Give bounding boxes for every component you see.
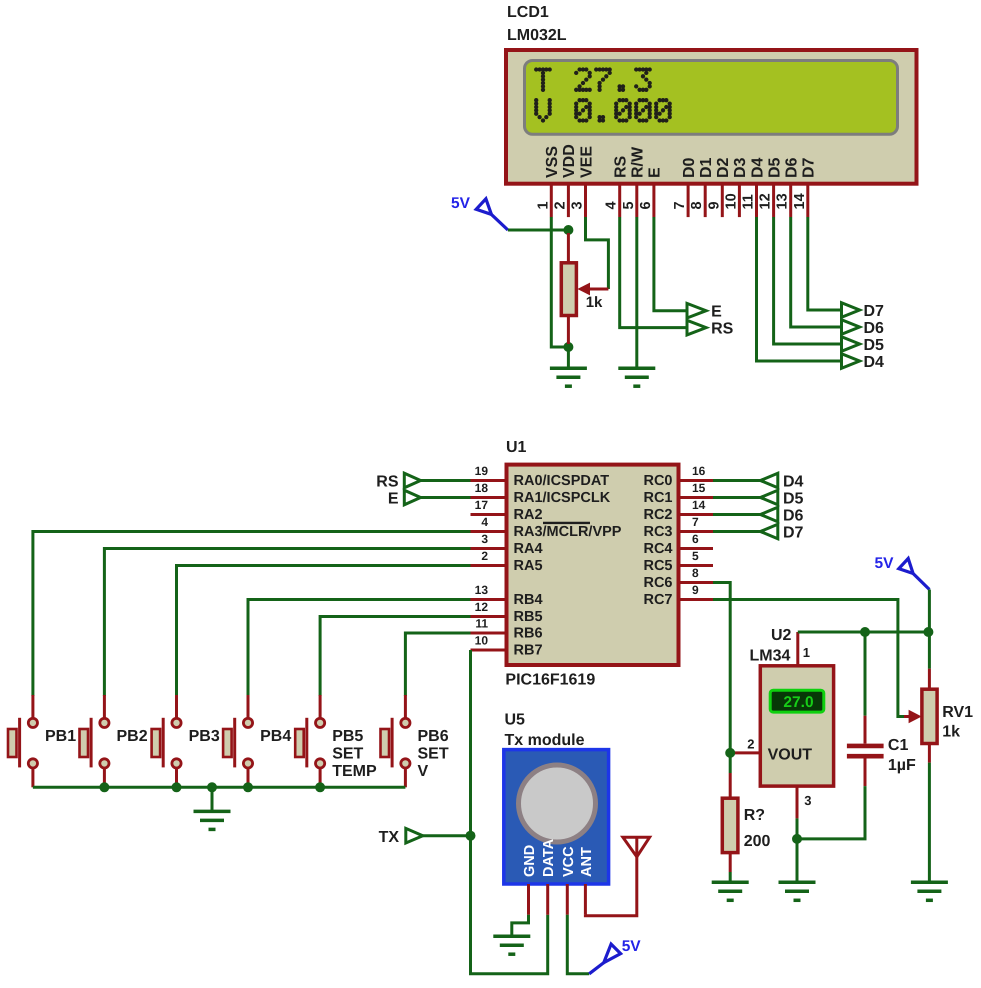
svg-text:11: 11 bbox=[475, 617, 488, 631]
wire pushbutton ground bus bbox=[33, 786, 406, 789]
terminal D4 (from LCD) bbox=[842, 354, 860, 369]
svg-text:10: 10 bbox=[475, 634, 489, 648]
svg-text:SET: SET bbox=[418, 746, 449, 763]
U1 pin 4 stub (RA3/MCLR/VPP) bbox=[471, 530, 507, 533]
svg-text:18: 18 bbox=[475, 481, 489, 495]
svg-text:5: 5 bbox=[621, 201, 637, 209]
junction bus x=248 bbox=[243, 782, 253, 792]
ground (R/W) bbox=[618, 368, 655, 386]
U1 pin 12 stub (RB5) bbox=[471, 615, 507, 618]
svg-text:3: 3 bbox=[570, 201, 586, 209]
terminal D7 (at U1) bbox=[760, 524, 777, 539]
svg-text:16: 16 bbox=[692, 464, 706, 478]
U1 pin 10 stub (RB7) bbox=[471, 649, 507, 652]
svg-text:1: 1 bbox=[803, 645, 810, 660]
junction RC6/VOUT/R? bbox=[725, 748, 735, 758]
svg-text:RS: RS bbox=[376, 474, 399, 491]
svg-text:200: 200 bbox=[744, 833, 771, 850]
svg-text:TEMP: TEMP bbox=[332, 763, 377, 780]
svg-text:RA2: RA2 bbox=[514, 507, 543, 523]
svg-text:RC5: RC5 bbox=[643, 558, 672, 574]
LCD pin 6 stub bbox=[652, 184, 655, 217]
wire bus to ground bbox=[211, 787, 214, 811]
power terminal 5V (top left) bbox=[451, 195, 508, 230]
wire U1 to terminal D5 bbox=[713, 496, 760, 499]
U2 pin 1 stub bbox=[796, 632, 799, 666]
module U5 Tx module bbox=[504, 712, 609, 885]
U5 pin GND stub bbox=[527, 884, 530, 915]
svg-text:LM34: LM34 bbox=[750, 648, 791, 665]
power terminal 5V (right) bbox=[875, 555, 930, 590]
svg-text:D7: D7 bbox=[783, 525, 804, 542]
wire U1 to pushbutton column x=176.5 bbox=[177, 566, 471, 697]
U1 pin 7 stub (RC3) bbox=[680, 530, 713, 533]
wire LCD R/W to ground bbox=[635, 217, 638, 368]
svg-text:RS: RS bbox=[613, 155, 630, 178]
wire U1 to terminal D6 bbox=[713, 513, 760, 516]
pushbutton PB2 bbox=[80, 695, 110, 787]
U1 pin 17 stub (RA2) bbox=[471, 513, 507, 516]
LCD LCD1 LM032L bbox=[506, 4, 917, 184]
svg-text:PB1: PB1 bbox=[45, 728, 76, 745]
svg-text:VOUT: VOUT bbox=[768, 747, 813, 764]
wire U5 GND to ground bbox=[512, 915, 529, 936]
svg-text:RC4: RC4 bbox=[643, 541, 672, 557]
svg-text:1k: 1k bbox=[942, 724, 960, 741]
LCD pin 4 stub bbox=[618, 184, 621, 217]
LCD pin 14 stub bbox=[806, 184, 809, 217]
U1 pin 14 stub (RC2) bbox=[680, 513, 713, 516]
U1 pin 6 stub (RC4) bbox=[680, 547, 713, 550]
wire U1 to terminal D7 bbox=[713, 530, 760, 533]
wire LCD D4 to terminal D4 bbox=[757, 217, 841, 361]
svg-text:RA1/ICSPCLK: RA1/ICSPCLK bbox=[514, 490, 611, 506]
junction C1 top bbox=[860, 627, 870, 637]
svg-text:VSS: VSS bbox=[544, 146, 561, 178]
svg-text:E: E bbox=[388, 491, 399, 508]
ground (RV1) bbox=[911, 882, 948, 900]
potentiometer RV1 1k bbox=[922, 669, 937, 763]
svg-text:PIC16F1619: PIC16F1619 bbox=[505, 672, 595, 689]
LCD display text line1 bbox=[534, 67, 652, 92]
svg-text:PB6: PB6 bbox=[418, 728, 449, 745]
svg-text:3: 3 bbox=[804, 793, 811, 808]
ground (U2) bbox=[779, 882, 816, 900]
pushbutton PB5 bbox=[295, 695, 325, 787]
U1 pin 2 stub (RA5) bbox=[471, 564, 507, 567]
svg-text:D3: D3 bbox=[732, 157, 749, 178]
svg-text:5V: 5V bbox=[875, 555, 895, 572]
wire LCD D5 to terminal D5 bbox=[774, 217, 840, 344]
wire to ground bbox=[567, 347, 570, 368]
svg-text:RB6: RB6 bbox=[514, 626, 543, 642]
svg-text:D4: D4 bbox=[749, 157, 766, 178]
svg-text:9: 9 bbox=[706, 201, 722, 209]
U1 pin 15 stub (RC1) bbox=[680, 496, 713, 499]
svg-text:E: E bbox=[647, 167, 664, 178]
U1 pin 18 stub (RA1/ICSPCLK) bbox=[471, 496, 507, 499]
terminal E (to U1 RA1) bbox=[404, 490, 420, 505]
svg-text:3: 3 bbox=[481, 532, 488, 546]
junction bus ground bbox=[207, 782, 217, 792]
wire TX to node bbox=[423, 834, 471, 837]
svg-text:RC0: RC0 bbox=[643, 473, 672, 489]
svg-text:D1: D1 bbox=[698, 157, 715, 178]
wire U2 pin1 to 5V rail bbox=[798, 631, 929, 634]
U1 pin 11 stub (RB6) bbox=[471, 632, 507, 635]
LCD pin 7 stub bbox=[687, 184, 690, 217]
ground (buttons) bbox=[194, 811, 231, 829]
svg-text:PB2: PB2 bbox=[117, 728, 148, 745]
svg-text:4: 4 bbox=[481, 515, 488, 529]
svg-text:D5: D5 bbox=[766, 157, 783, 178]
svg-text:9: 9 bbox=[692, 583, 699, 597]
wire U1 to pushbutton column x=248 bbox=[248, 600, 471, 697]
LCD pin 8 stub bbox=[704, 184, 707, 217]
terminal D7 (from LCD) bbox=[842, 303, 860, 318]
terminal D6 (at U1) bbox=[760, 507, 777, 522]
wire 5V to RV1 bbox=[928, 590, 931, 669]
LCD display text line2 bbox=[534, 98, 672, 123]
svg-text:RC7: RC7 bbox=[643, 592, 672, 608]
svg-text:1: 1 bbox=[535, 201, 551, 209]
svg-text:14: 14 bbox=[692, 498, 706, 512]
svg-text:RB4: RB4 bbox=[514, 592, 543, 608]
ground (contrast pot) bbox=[550, 368, 587, 386]
U2 pin 2 stub bbox=[730, 751, 760, 754]
svg-text:5V: 5V bbox=[622, 938, 642, 955]
svg-text:RC6: RC6 bbox=[643, 575, 672, 591]
svg-text:LM032L: LM032L bbox=[507, 27, 567, 44]
svg-text:D7: D7 bbox=[801, 157, 818, 178]
svg-text:C1: C1 bbox=[888, 737, 909, 754]
svg-text:R/W: R/W bbox=[630, 146, 647, 178]
svg-text:LCD1: LCD1 bbox=[507, 4, 549, 21]
svg-text:RA0/ICSPDAT: RA0/ICSPDAT bbox=[514, 473, 610, 489]
U1 pin 9 stub (RC7) bbox=[680, 598, 713, 601]
junction bus x=176.5 bbox=[172, 782, 182, 792]
wire U5 VCC to 5V bbox=[567, 915, 589, 974]
terminal D5 (from LCD) bbox=[842, 337, 860, 352]
LCD pin 2 stub bbox=[567, 184, 570, 217]
svg-text:SET: SET bbox=[332, 746, 363, 763]
svg-text:D6: D6 bbox=[864, 320, 885, 337]
LCD pin 9 stub bbox=[721, 184, 724, 217]
svg-text:PB4: PB4 bbox=[260, 728, 291, 745]
svg-text:D4: D4 bbox=[783, 474, 804, 491]
svg-text:V: V bbox=[418, 763, 429, 780]
svg-text:RB5: RB5 bbox=[514, 609, 543, 625]
U5 pin VCC stub bbox=[566, 884, 569, 915]
svg-text:PB3: PB3 bbox=[189, 728, 220, 745]
ground (U5) bbox=[493, 936, 530, 954]
svg-text:VEE: VEE bbox=[578, 146, 595, 178]
svg-text:4: 4 bbox=[604, 201, 620, 209]
svg-text:1µF: 1µF bbox=[888, 757, 916, 774]
svg-text:8: 8 bbox=[692, 566, 699, 580]
svg-text:D2: D2 bbox=[715, 157, 732, 178]
wire LCD D7 to terminal D7 bbox=[808, 217, 840, 310]
svg-text:5V: 5V bbox=[451, 195, 471, 212]
svg-text:E: E bbox=[711, 304, 722, 321]
LCD pin 5 stub bbox=[635, 184, 638, 217]
svg-text:U1: U1 bbox=[506, 439, 527, 456]
svg-text:RC1: RC1 bbox=[643, 490, 672, 506]
wire U1 to pushbutton column x=320.1 bbox=[320, 617, 470, 697]
wire U1 RC7 to RV1 wiper bbox=[713, 600, 906, 717]
svg-text:D0: D0 bbox=[681, 157, 698, 178]
svg-text:D5: D5 bbox=[864, 337, 885, 354]
junction VSS/pot ground bbox=[563, 342, 573, 352]
svg-text:7: 7 bbox=[672, 201, 688, 209]
junction TX/RB7/DATA bbox=[466, 831, 476, 841]
svg-text:19: 19 bbox=[475, 464, 489, 478]
svg-text:2: 2 bbox=[747, 737, 754, 752]
U2 pin 3 stub bbox=[796, 786, 799, 818]
U1 pin 8 stub (RC6) bbox=[680, 581, 713, 584]
svg-text:13: 13 bbox=[475, 583, 489, 597]
wire U1 to terminal D4 bbox=[713, 479, 760, 482]
svg-text:15: 15 bbox=[692, 481, 706, 495]
svg-text:RC2: RC2 bbox=[643, 507, 672, 523]
svg-text:TX: TX bbox=[379, 829, 400, 846]
LCD pin 10 stub bbox=[738, 184, 741, 217]
svg-text:Tx module: Tx module bbox=[505, 732, 585, 749]
wire U5 ANT to antenna bbox=[585, 857, 636, 916]
wire LCD D6 to terminal D6 bbox=[791, 217, 840, 327]
svg-text:7: 7 bbox=[692, 515, 699, 529]
svg-text:VDD: VDD bbox=[561, 144, 578, 178]
RV1 wiper arrow bbox=[904, 710, 922, 724]
svg-text:PB5: PB5 bbox=[332, 728, 363, 745]
svg-text:8: 8 bbox=[689, 201, 705, 209]
svg-text:RA5: RA5 bbox=[514, 558, 543, 574]
svg-text:12: 12 bbox=[475, 600, 489, 614]
pushbutton PB6 bbox=[381, 695, 411, 787]
terminal D4 (at U1) bbox=[760, 473, 777, 488]
LCD pin 11 stub bbox=[755, 184, 758, 217]
svg-text:10: 10 bbox=[723, 193, 739, 209]
svg-text:RC3: RC3 bbox=[643, 524, 672, 540]
wire U1 to pushbutton column x=32.9 bbox=[33, 532, 471, 697]
U5 pin DATA stub bbox=[546, 884, 549, 915]
power terminal 5V (bottom) bbox=[589, 938, 641, 974]
wire U1 RB7 to U5 DATA bbox=[471, 650, 548, 974]
svg-text:D4: D4 bbox=[864, 354, 885, 371]
svg-text:RA4: RA4 bbox=[514, 541, 543, 557]
svg-text:D6: D6 bbox=[783, 508, 804, 525]
svg-text:RB7: RB7 bbox=[514, 643, 543, 659]
terminal RS (from LCD) bbox=[687, 320, 706, 335]
resistor R? 200 bbox=[722, 753, 738, 882]
svg-text:27.0: 27.0 bbox=[783, 694, 813, 711]
svg-text:6: 6 bbox=[692, 532, 699, 546]
pot 1k wiper bbox=[577, 217, 608, 295]
svg-text:2: 2 bbox=[552, 201, 568, 209]
svg-text:ANT: ANT bbox=[579, 847, 595, 877]
svg-text:D7: D7 bbox=[864, 303, 885, 320]
U1 pin 13 stub (RB4) bbox=[471, 598, 507, 601]
svg-text:GND: GND bbox=[522, 845, 538, 877]
ground (R?) bbox=[712, 882, 749, 900]
LCD pin 13 stub bbox=[789, 184, 792, 217]
svg-text:13: 13 bbox=[775, 193, 791, 209]
junction pin3/C1 bbox=[792, 834, 802, 844]
terminal E (from LCD) bbox=[687, 303, 706, 318]
wire U1 to pushbutton column x=405.4 bbox=[405, 633, 470, 696]
svg-text:VCC: VCC bbox=[561, 846, 577, 877]
wire LCD VSS to ground bbox=[551, 217, 568, 347]
U1 pin 3 stub (RA4) bbox=[471, 547, 507, 550]
svg-text:17: 17 bbox=[475, 498, 489, 512]
svg-text:2: 2 bbox=[481, 549, 488, 563]
capacitor C1 1uF bbox=[797, 632, 884, 839]
antenna symbol bbox=[623, 837, 650, 857]
terminal D6 (from LCD) bbox=[842, 320, 860, 335]
svg-text:RS: RS bbox=[711, 321, 734, 338]
svg-text:R?: R? bbox=[744, 807, 765, 824]
potentiometer 1k (contrast) bbox=[561, 233, 576, 344]
pushbutton PB1 bbox=[8, 695, 38, 787]
terminal TX bbox=[406, 828, 423, 843]
svg-text:D5: D5 bbox=[783, 491, 804, 508]
svg-text:DATA: DATA bbox=[541, 838, 557, 877]
svg-text:5: 5 bbox=[692, 549, 699, 563]
wire E to RA1 bbox=[421, 496, 471, 499]
svg-text:D6: D6 bbox=[784, 157, 801, 178]
svg-text:14: 14 bbox=[792, 193, 808, 209]
wire LCD RS to terminal bbox=[620, 217, 686, 328]
junction VDD/5V bbox=[563, 225, 573, 235]
pushbutton PB3 bbox=[152, 695, 181, 787]
wire U2 pin3 to ground bbox=[796, 818, 799, 882]
terminal D5 (at U1) bbox=[760, 490, 777, 505]
wire U1 to pushbutton column x=104.4 bbox=[104, 549, 470, 697]
svg-text:1k: 1k bbox=[586, 294, 603, 311]
microcontroller U1 PIC16F1619 bbox=[505, 439, 678, 689]
terminal RS (to U1 RA0) bbox=[404, 473, 420, 488]
U1 pin 16 stub (RC0) bbox=[680, 479, 713, 482]
temperature sensor U2 LM34 bbox=[750, 627, 834, 786]
wire RV1 to ground bbox=[928, 763, 931, 882]
LCD pin 1 stub bbox=[550, 184, 553, 217]
svg-text:U5: U5 bbox=[505, 712, 526, 729]
wire 5V to LCD VDD bbox=[508, 229, 569, 232]
U1 pin 19 stub (RA0/ICSPDAT) bbox=[471, 479, 507, 482]
svg-text:U2: U2 bbox=[771, 627, 792, 644]
LCD pin 3 stub bbox=[584, 184, 587, 217]
junction 5V/RV1 bbox=[923, 627, 933, 637]
wire U1 RC6 to LM34 VOUT bbox=[713, 583, 730, 751]
svg-text:11: 11 bbox=[741, 194, 757, 209]
wire LCD E to terminal bbox=[654, 217, 686, 311]
svg-text:RA3/MCLR/VPP: RA3/MCLR/VPP bbox=[514, 524, 622, 540]
wire RS to RA0 bbox=[421, 479, 471, 482]
pushbutton PB4 bbox=[223, 695, 252, 787]
svg-text:12: 12 bbox=[758, 193, 774, 209]
junction bus x=320.1 bbox=[315, 782, 325, 792]
svg-text:RV1: RV1 bbox=[942, 704, 973, 721]
U5 pin ANT stub bbox=[584, 884, 587, 915]
junction bus x=104.4 bbox=[99, 782, 109, 792]
LCD pin 12 stub bbox=[772, 184, 775, 217]
U1 pin 5 stub (RC5) bbox=[680, 564, 713, 567]
svg-text:6: 6 bbox=[638, 201, 654, 209]
